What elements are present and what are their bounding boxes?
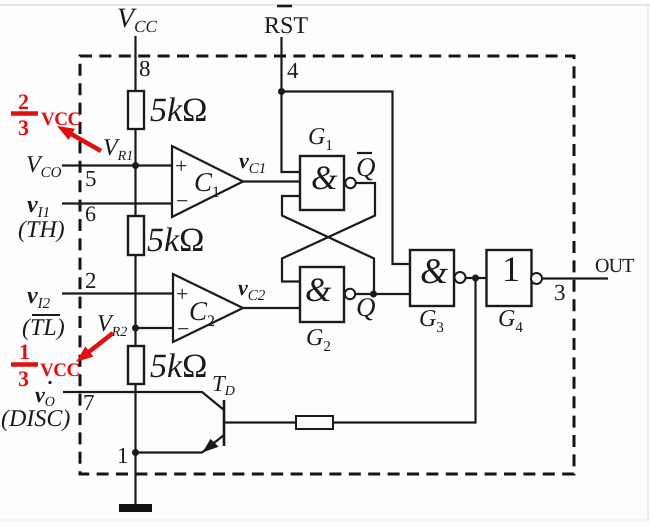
wire R3 to ground (134, 384, 136, 506)
ground (119, 504, 152, 512)
wire pin7 DISC (63, 392, 224, 410)
svg-text:VCC: VCC (40, 360, 80, 381)
wire vC1 (243, 180, 300, 182)
gate G3 box (410, 250, 454, 306)
svg-text:Q: Q (356, 152, 376, 182)
svg-text:OUT: OUT (595, 255, 634, 277)
resistor R3 5k (128, 346, 144, 384)
svg-text:−: − (177, 316, 189, 341)
gate G4 box (487, 250, 532, 306)
gate G1 box (300, 156, 344, 210)
node out branch dot (472, 275, 479, 282)
svg-text:(TL): (TL) (22, 315, 65, 341)
svg-text:&: & (311, 160, 338, 197)
svg-text:5kΩ: 5kΩ (147, 222, 204, 259)
wire VCC to R1 (134, 36, 136, 92)
wire Q to G3 (355, 293, 410, 295)
svg-text:3: 3 (554, 280, 566, 305)
wire pin5 VCO (62, 164, 172, 166)
label Qbar (356, 152, 376, 182)
label RST (264, 6, 308, 39)
svg-text:&: & (305, 272, 332, 309)
transistor TD emitter (136, 435, 225, 453)
svg-text:6: 6 (85, 201, 96, 226)
node RST branch dot (278, 88, 285, 95)
gate G2 box (300, 267, 344, 322)
arrow to VR2 red (76, 331, 114, 362)
svg-text:7: 7 (83, 390, 95, 415)
wire Q to cross (282, 196, 374, 294)
transistor TD bar (223, 400, 226, 446)
svg-text:1: 1 (19, 339, 30, 364)
label TL (22, 315, 65, 341)
wire R1 to R2 (134, 128, 136, 216)
wire pin2 TL (62, 292, 173, 294)
node VR2 dot (132, 325, 139, 332)
svg-text:4: 4 (287, 58, 299, 83)
svg-text:1: 1 (502, 249, 520, 289)
wire vC2 (243, 307, 300, 309)
wire RST branch to G3 (282, 92, 411, 265)
svg-text:5kΩ: 5kΩ (150, 92, 207, 129)
resistor R2 5k (128, 216, 144, 255)
wire base resistor to TD base (225, 421, 296, 423)
svg-text:RST: RST (264, 13, 308, 39)
svg-text:8: 8 (139, 56, 151, 81)
svg-text:Q: Q (356, 292, 376, 322)
IC dashed boundary (80, 56, 574, 474)
wire VR2 to C2 minus (136, 327, 174, 329)
wire pin6 TH (62, 202, 172, 204)
svg-text:5: 5 (85, 166, 97, 191)
node VR1 dot (132, 162, 139, 169)
svg-text:−: − (176, 188, 188, 213)
svg-text:3: 3 (18, 115, 29, 140)
label 2/3 VCC red (11, 89, 81, 140)
G4 output bubble (531, 273, 542, 284)
G2 output bubble (345, 289, 355, 299)
label 1/3 VCC red (11, 339, 80, 391)
svg-text:5kΩ: 5kΩ (150, 348, 207, 385)
label vO dot (48, 381, 51, 384)
svg-text:2: 2 (85, 268, 97, 293)
svg-text:&: & (420, 251, 448, 291)
wire R2 to R3 (134, 255, 136, 346)
arrow to VR1 red (57, 126, 102, 153)
svg-text:(TH): (TH) (18, 217, 65, 243)
resistor R1 5k (128, 91, 144, 129)
node pin1 dot (132, 449, 139, 456)
svg-text:3: 3 (18, 366, 29, 391)
wire OUT (542, 277, 608, 279)
svg-text:+: + (176, 281, 188, 306)
svg-text:1: 1 (117, 443, 129, 468)
G1 output bubble (345, 178, 355, 188)
wire RST down to G1 (282, 37, 301, 172)
base resistor (296, 416, 333, 429)
G3 output bubble (455, 272, 466, 283)
node Q dot (370, 291, 377, 298)
svg-text:+: + (175, 153, 187, 178)
wire Qbar to cross (282, 183, 375, 282)
svg-text:(DISC): (DISC) (1, 406, 70, 432)
comparator C1 (172, 146, 243, 217)
comparator C2 (173, 274, 243, 342)
wire G3 to G4 (466, 277, 487, 279)
svg-text:2: 2 (18, 89, 29, 114)
wire G3 out to base resistor (333, 278, 476, 423)
